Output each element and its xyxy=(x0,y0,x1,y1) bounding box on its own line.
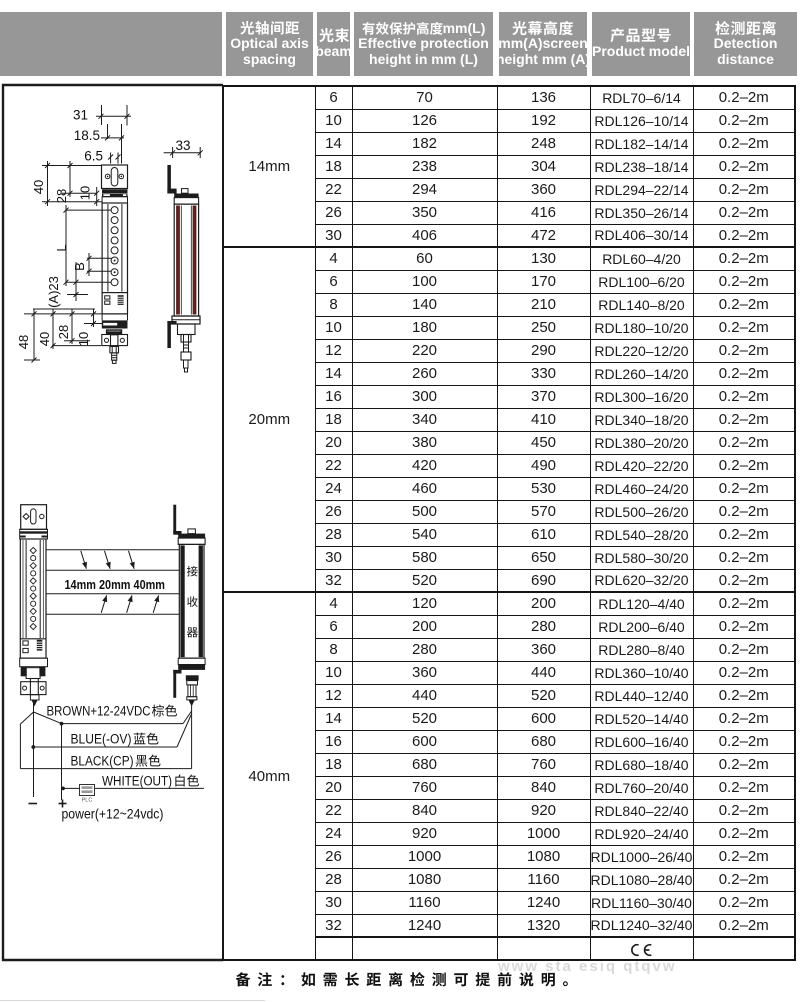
svg-text:6.5: 6.5 xyxy=(84,149,103,164)
svg-text:40: 40 xyxy=(37,332,52,346)
svg-text:28: 28 xyxy=(56,325,71,339)
svg-text:18.5: 18.5 xyxy=(74,128,100,143)
svg-text:BLUE(-OV): BLUE(-OV) xyxy=(71,732,132,747)
svg-text:(A)23: (A)23 xyxy=(46,276,61,308)
svg-text:28: 28 xyxy=(54,189,69,203)
svg-text:48: 48 xyxy=(16,335,31,349)
svg-text:B: B xyxy=(72,262,87,271)
svg-text:40: 40 xyxy=(31,180,46,194)
svg-text:BLACK(CP): BLACK(CP) xyxy=(71,754,134,769)
svg-text:L: L xyxy=(54,244,69,251)
svg-text:10: 10 xyxy=(76,332,91,346)
svg-text:14mm 20mm 40mm: 14mm 20mm 40mm xyxy=(65,577,166,592)
svg-text:BROWN+12-24VDC: BROWN+12-24VDC xyxy=(47,704,151,719)
svg-text:WHITE(OUT): WHITE(OUT) xyxy=(102,774,172,789)
svg-text:31: 31 xyxy=(73,108,88,123)
svg-text:PLC: PLC xyxy=(82,798,93,804)
svg-text:power(+12~24vdc): power(+12~24vdc) xyxy=(62,807,164,822)
svg-text:33: 33 xyxy=(175,138,190,153)
